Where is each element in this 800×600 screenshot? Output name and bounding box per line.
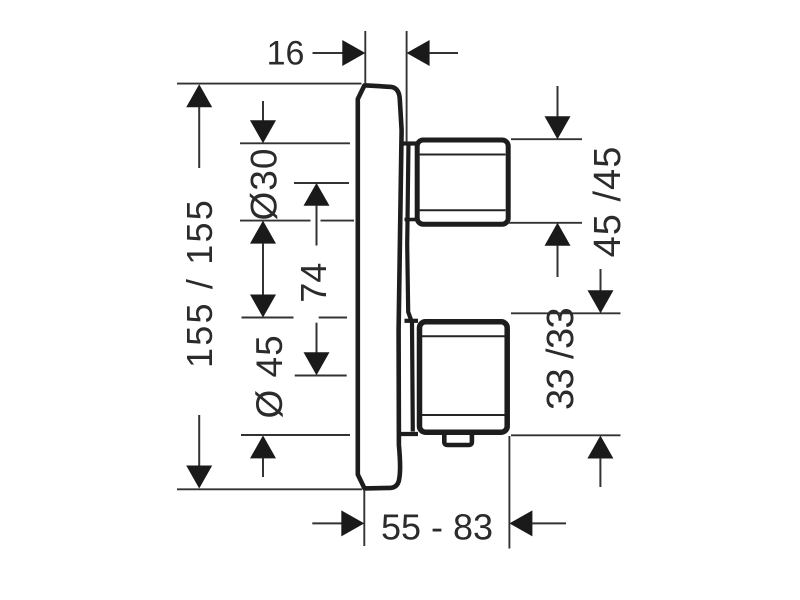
svg-text:45 /45: 45 /45 xyxy=(587,146,629,258)
dimension 16: left arrowhead xyxy=(342,40,365,66)
dimension 16: left extension line xyxy=(364,31,366,84)
dimension 55-83: left arrowhead xyxy=(341,510,364,536)
dimension 33/33: top arrowhead xyxy=(588,290,614,313)
dimension 55-83: left tail xyxy=(312,522,342,524)
dimension 33/33: top tail xyxy=(600,269,602,291)
dimension 16: right tail xyxy=(429,52,458,54)
dimension diam30: bottom extension line right part xyxy=(321,220,355,222)
top knob body xyxy=(417,140,508,224)
plate outline (escutcheon side view) xyxy=(358,85,402,488)
bottom knob stem top edge xyxy=(405,319,419,323)
dimension diam30: top extension line xyxy=(240,142,350,144)
svg-text:Ø30: Ø30 xyxy=(244,148,285,221)
svg-text:74: 74 xyxy=(293,263,334,303)
dimension 16: right extension line xyxy=(406,31,408,142)
dimension diam30: bottom arrowhead xyxy=(250,221,276,244)
dimension diam30: top tail xyxy=(262,101,264,121)
dimension diam30: bottom extension line left part xyxy=(240,220,311,222)
dimension 33/33: bottom tail xyxy=(599,458,601,487)
dimension 155/155: top tail xyxy=(198,107,200,168)
dimension 155/155: top extension line xyxy=(177,83,362,85)
dimension 74: bottom arrowhead xyxy=(304,352,330,375)
dimension 155/155: bottom tail xyxy=(198,415,200,466)
top knob inner line upper xyxy=(419,154,506,156)
dimension 33/33: bottom arrowhead xyxy=(587,436,613,459)
shared tail between diam30 bottom arrow and diam45 top arrow xyxy=(262,243,264,295)
dimension diam45: top arrowhead xyxy=(250,295,276,318)
bottom knob inner line upper xyxy=(422,335,505,337)
dimension 155/155: top arrowhead xyxy=(186,84,212,107)
top knob inner line lower xyxy=(419,209,506,211)
svg-text:16: 16 xyxy=(267,35,305,73)
dimension diam45: bottom arrowhead xyxy=(250,435,276,458)
dimension 55-83: left extension line xyxy=(363,490,365,546)
dimension diam45: top extension line right part xyxy=(319,317,347,319)
dimension diam45: bottom extension line xyxy=(241,434,350,436)
hub / knob flange silhouette line xyxy=(407,142,413,432)
bottom knob stem bottom edge xyxy=(400,432,418,436)
dimension 155/155: bottom arrowhead xyxy=(186,466,212,489)
dimension diam30: top arrowhead xyxy=(250,120,276,143)
dimension 33/33: bottom extension line xyxy=(511,434,621,436)
top knob stem top edge xyxy=(401,141,416,145)
svg-text:33 /33: 33 /33 xyxy=(540,308,582,410)
dimension 16: left tail xyxy=(313,52,343,54)
dimension 45/45: bottom extension line xyxy=(508,222,582,224)
dimension 55-83: right arrowhead xyxy=(509,510,532,536)
dimension 155/155: bottom extension line xyxy=(177,488,362,490)
dimension 55-83: right tail xyxy=(532,522,566,524)
dimension 74: top arrowhead xyxy=(304,183,330,206)
svg-text:Ø 45: Ø 45 xyxy=(249,334,290,418)
dimension 74: bottom extension line xyxy=(295,375,347,377)
dimension 33/33: top extension line xyxy=(511,312,621,314)
dimension 45/45: top arrowhead xyxy=(545,116,571,139)
svg-text:55 - 83: 55 - 83 xyxy=(381,507,493,548)
dimension diam45: bottom tail xyxy=(262,458,264,477)
dimension 45/45: top extension line xyxy=(511,138,582,140)
dimension 16: right arrowhead xyxy=(407,40,430,66)
bottom knob body xyxy=(420,322,508,432)
dimension diam45: top extension line left part xyxy=(242,317,294,319)
dimension 45/45: bottom tail xyxy=(557,245,559,277)
dimension 55-83: right extension line xyxy=(508,436,510,549)
dimension 45/45: bottom arrowhead xyxy=(545,223,571,246)
dimension 74: lower tail xyxy=(316,323,318,353)
svg-text:155 / 155: 155 / 155 xyxy=(179,198,220,368)
dimension 74: top extension line xyxy=(294,182,349,184)
top knob stem bottom edge xyxy=(405,218,417,222)
notch below bottom knob xyxy=(444,435,472,446)
dimension 74: upper tail xyxy=(316,205,318,245)
dimension 45/45: top tail xyxy=(557,86,559,117)
bottom knob inner line lower xyxy=(422,414,505,416)
